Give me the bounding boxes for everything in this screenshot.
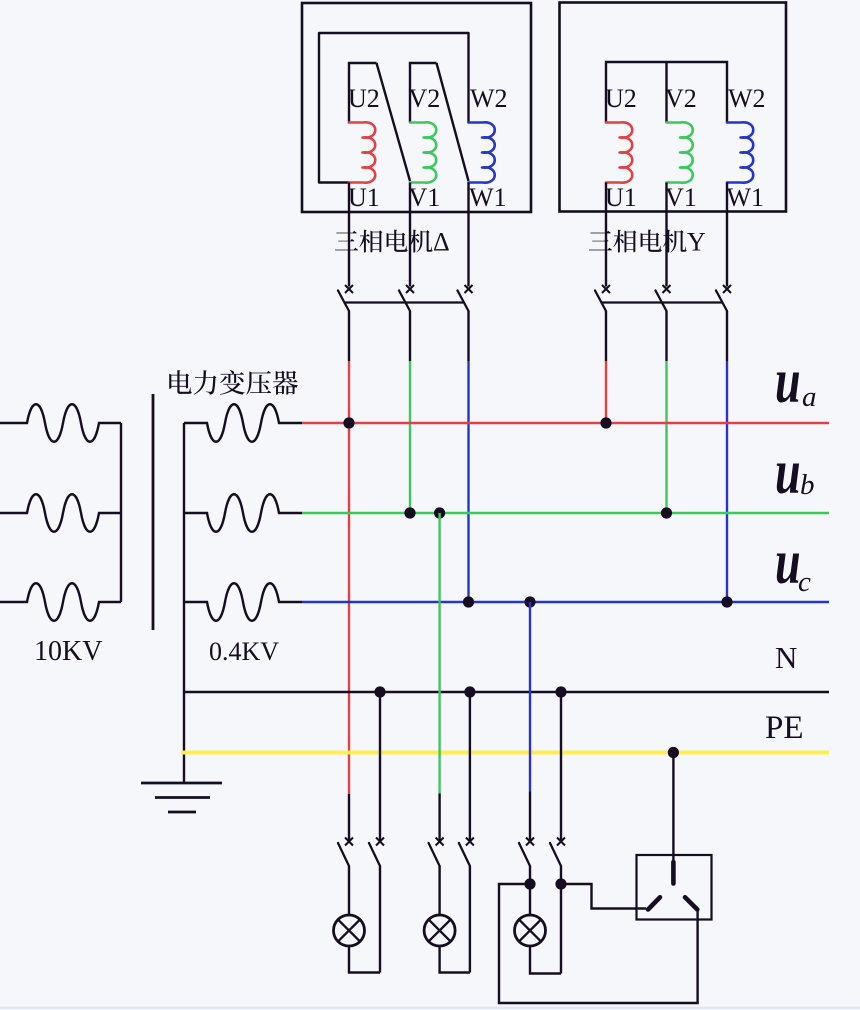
svg-text:V1: V1 — [409, 183, 441, 212]
junction node lamp3 neutral / socket neutral — [555, 878, 566, 889]
junction node uc / QF1-L3 — [463, 596, 474, 607]
junction node N / lamp3 return — [555, 686, 566, 697]
motor winding coil M2-W (blue) — [727, 122, 753, 182]
wire S3a to lamp EL3 — [529, 866, 531, 916]
switch contact x-mark S1a — [345, 838, 353, 846]
switch contact x-mark QF2-L1 — [602, 285, 610, 293]
switch blade QF2-L2 — [656, 291, 667, 312]
svg-text:W2: W2 — [728, 84, 766, 113]
svg-text:V2: V2 — [665, 84, 697, 113]
transformer primary winding phase C — [0, 583, 121, 621]
switch blade QF1-L2 — [399, 291, 410, 312]
wire S1a to lamp EL1 — [348, 866, 350, 916]
wire lead M1-U1 to breaker — [348, 183, 350, 287]
switch contact x-mark S2a — [436, 838, 444, 846]
switch blade QF2-L3 — [716, 291, 727, 312]
svg-text:W1: W1 — [727, 183, 765, 212]
wire bus ub (phase B, green) — [302, 512, 829, 515]
wire lamp2 neutral drop — [469, 692, 471, 840]
svg-text:W1: W1 — [469, 183, 507, 212]
socket live pin — [685, 897, 697, 909]
transformer secondary winding phase a — [184, 404, 302, 442]
svg-text:a: a — [802, 381, 817, 413]
wire socket neutral lead — [561, 884, 646, 909]
wire QF1-L2 drop (green) — [409, 361, 411, 513]
wire lamp2 feed (green) — [438, 513, 440, 794]
wire QF2-L2 drop (green) — [665, 361, 667, 513]
wire phase A drop / lamp1 feed (red) — [348, 361, 350, 794]
junction node ua / QF2-L1 — [600, 417, 611, 428]
junction node N / lamp2 return — [464, 686, 475, 697]
wire S3b to return loop — [560, 866, 562, 974]
wire bus N (neutral) — [184, 691, 829, 694]
wire bus PE (yellow) — [181, 751, 829, 755]
switch contact x-mark QF1-L3 — [465, 285, 473, 293]
lamp EL1 — [334, 915, 365, 946]
motor M2 terminal box (star connection) — [560, 3, 787, 212]
wire terminal U2 stub — [349, 63, 377, 123]
switch contact x-mark S3a — [526, 838, 534, 846]
wire star point bar — [606, 62, 727, 123]
switch contact x-mark QF1-L2 — [406, 285, 414, 293]
wire lead M1-W1 to breaker — [467, 183, 469, 287]
wire delta link U1-W2 bracket — [319, 33, 469, 183]
junction node lamp3 phase / socket feed — [524, 878, 535, 889]
wire lamp EL2 return loop — [440, 946, 470, 973]
wire QF1-L2 drop (black) — [409, 311, 411, 361]
svg-text:u: u — [775, 346, 801, 417]
socket neutral pin — [648, 897, 660, 909]
switch blade S3b — [550, 843, 561, 866]
wire bus ua (phase A, red) — [302, 422, 829, 425]
wire QF1-L3 drop (black) — [467, 311, 469, 361]
wire delta link V2-W1 diagonal — [437, 63, 469, 181]
junction node uc / QF2-L3 — [721, 596, 732, 607]
wire lamp2 feed lower (black) — [438, 794, 440, 841]
switch contact x-mark QF2-L3 — [723, 285, 731, 293]
junction node ub / QF2-L2 — [661, 507, 672, 518]
junction node ua / QF1-L1 — [343, 417, 354, 428]
wire S2a to lamp EL2 — [438, 866, 440, 916]
circuit breaker QF1 tie bar — [344, 301, 465, 303]
switch blade S2a — [429, 843, 440, 866]
wire QF2-L1 drop (red) — [605, 361, 607, 423]
wire QF2-L3 drop (blue) — [726, 361, 728, 602]
svg-text:U1: U1 — [605, 183, 637, 212]
wire socket earth lead from PE — [672, 753, 674, 863]
wire QF1-L1 drop (black) — [348, 311, 350, 361]
svg-text:U2: U2 — [348, 84, 380, 113]
wire lead M1-V1 to breaker — [409, 183, 411, 287]
wire terminal V2 stub — [410, 63, 437, 123]
switch blade QF1-L1 — [338, 291, 349, 312]
svg-text:U1: U1 — [348, 183, 380, 212]
transformer T1 core — [152, 394, 155, 630]
svg-text:V1: V1 — [665, 183, 697, 212]
switch contact x-mark S3b — [557, 838, 565, 846]
motor winding coil M1-U (red) — [349, 122, 375, 182]
svg-text:W2: W2 — [470, 84, 508, 113]
transformer secondary winding phase b — [184, 494, 302, 532]
circuit breaker QF2 tie bar — [601, 301, 723, 303]
transformer secondary winding phase c — [184, 583, 302, 621]
wire S1b to return loop — [379, 866, 381, 973]
junction node N / lamp1 return — [374, 686, 385, 697]
wire lamp EL1 return loop — [349, 946, 380, 973]
switch blade S1a — [338, 843, 349, 866]
motor winding coil M2-U (red) — [606, 122, 632, 182]
switch contact x-mark QF1-L1 — [345, 285, 353, 293]
wire lamp1 neutral drop — [379, 692, 381, 840]
svg-text:u: u — [775, 527, 801, 598]
wire QF1-L3 drop (blue) — [467, 361, 469, 602]
transformer primary winding phase B — [0, 494, 121, 532]
svg-text:b: b — [800, 469, 815, 501]
socket earth pin — [671, 862, 676, 884]
motor winding coil M2-V (green) — [667, 122, 693, 182]
wire lead M2-W1 to breaker — [726, 183, 728, 287]
svg-text:N: N — [775, 640, 797, 675]
switch blade S3a — [519, 843, 530, 866]
wire lamp EL3 return loop — [530, 946, 561, 974]
wire lamp3 feed (blue) — [529, 602, 531, 792]
wire S2b to return loop — [469, 866, 471, 973]
junction node uc / lamp3 tap — [524, 596, 535, 607]
wire QF2-L2 drop (black) — [665, 311, 667, 361]
motor M1 terminal box (delta connection) — [302, 3, 531, 212]
svg-text:U2: U2 — [605, 84, 637, 113]
svg-text:PE: PE — [765, 710, 804, 746]
switch blade S1b — [369, 843, 380, 866]
switch contact x-mark QF2-L2 — [663, 285, 671, 293]
wire lamp1 feed lower (black) — [348, 794, 350, 840]
wire bus uc (phase C, blue) — [302, 601, 829, 604]
page bottom rule — [0, 1007, 860, 1009]
switch contact x-mark S2b — [466, 838, 474, 846]
wire lamp3 neutral drop — [560, 692, 562, 840]
wire socket live loop (via bottom) — [499, 884, 698, 1003]
svg-text:c: c — [798, 566, 811, 598]
wire QF2-L1 drop (black) — [605, 311, 607, 361]
switch contact x-mark S1b — [376, 838, 384, 846]
lamp EL2 — [424, 915, 455, 946]
wire QF2-L3 drop (black) — [726, 311, 728, 361]
svg-text:u: u — [775, 437, 801, 508]
junction node PE / socket earth — [668, 747, 679, 758]
junction node ub / lamp2 tap — [434, 507, 445, 518]
label "电力变压器" — [169, 370, 298, 395]
svg-text:Y: Y — [687, 228, 706, 257]
transformer primary winding phase A — [0, 404, 121, 442]
svg-text:V2: V2 — [409, 84, 441, 113]
wire lamp3 feed lower (black) — [529, 792, 531, 841]
svg-text:0.4KV: 0.4KV — [209, 637, 279, 666]
svg-text:10KV: 10KV — [34, 636, 102, 667]
wire lead M2-U1 to breaker — [605, 183, 607, 287]
motor winding coil M1-W (blue) — [469, 122, 495, 182]
motor winding coil M1-V (green) — [410, 122, 436, 182]
label "三相电机Δ" — [335, 230, 433, 253]
wire secondary star link / neutral-earth conductor — [183, 423, 185, 783]
switch blade QF2-L1 — [595, 291, 606, 312]
switch blade S2b — [459, 843, 470, 866]
socket XS outline — [637, 855, 712, 920]
label "三相电机Y" — [589, 230, 687, 253]
switch blade QF1-L3 — [458, 291, 469, 312]
svg-text:Δ: Δ — [433, 228, 450, 257]
wire delta link U2-V1 diagonal — [377, 63, 411, 181]
wire primary star link — [120, 423, 122, 602]
ground symbol — [141, 783, 222, 812]
lamp EL3 — [515, 915, 546, 946]
junction node ub / QF1-L2 — [404, 507, 415, 518]
wire lead M2-V1 to breaker — [665, 183, 667, 287]
